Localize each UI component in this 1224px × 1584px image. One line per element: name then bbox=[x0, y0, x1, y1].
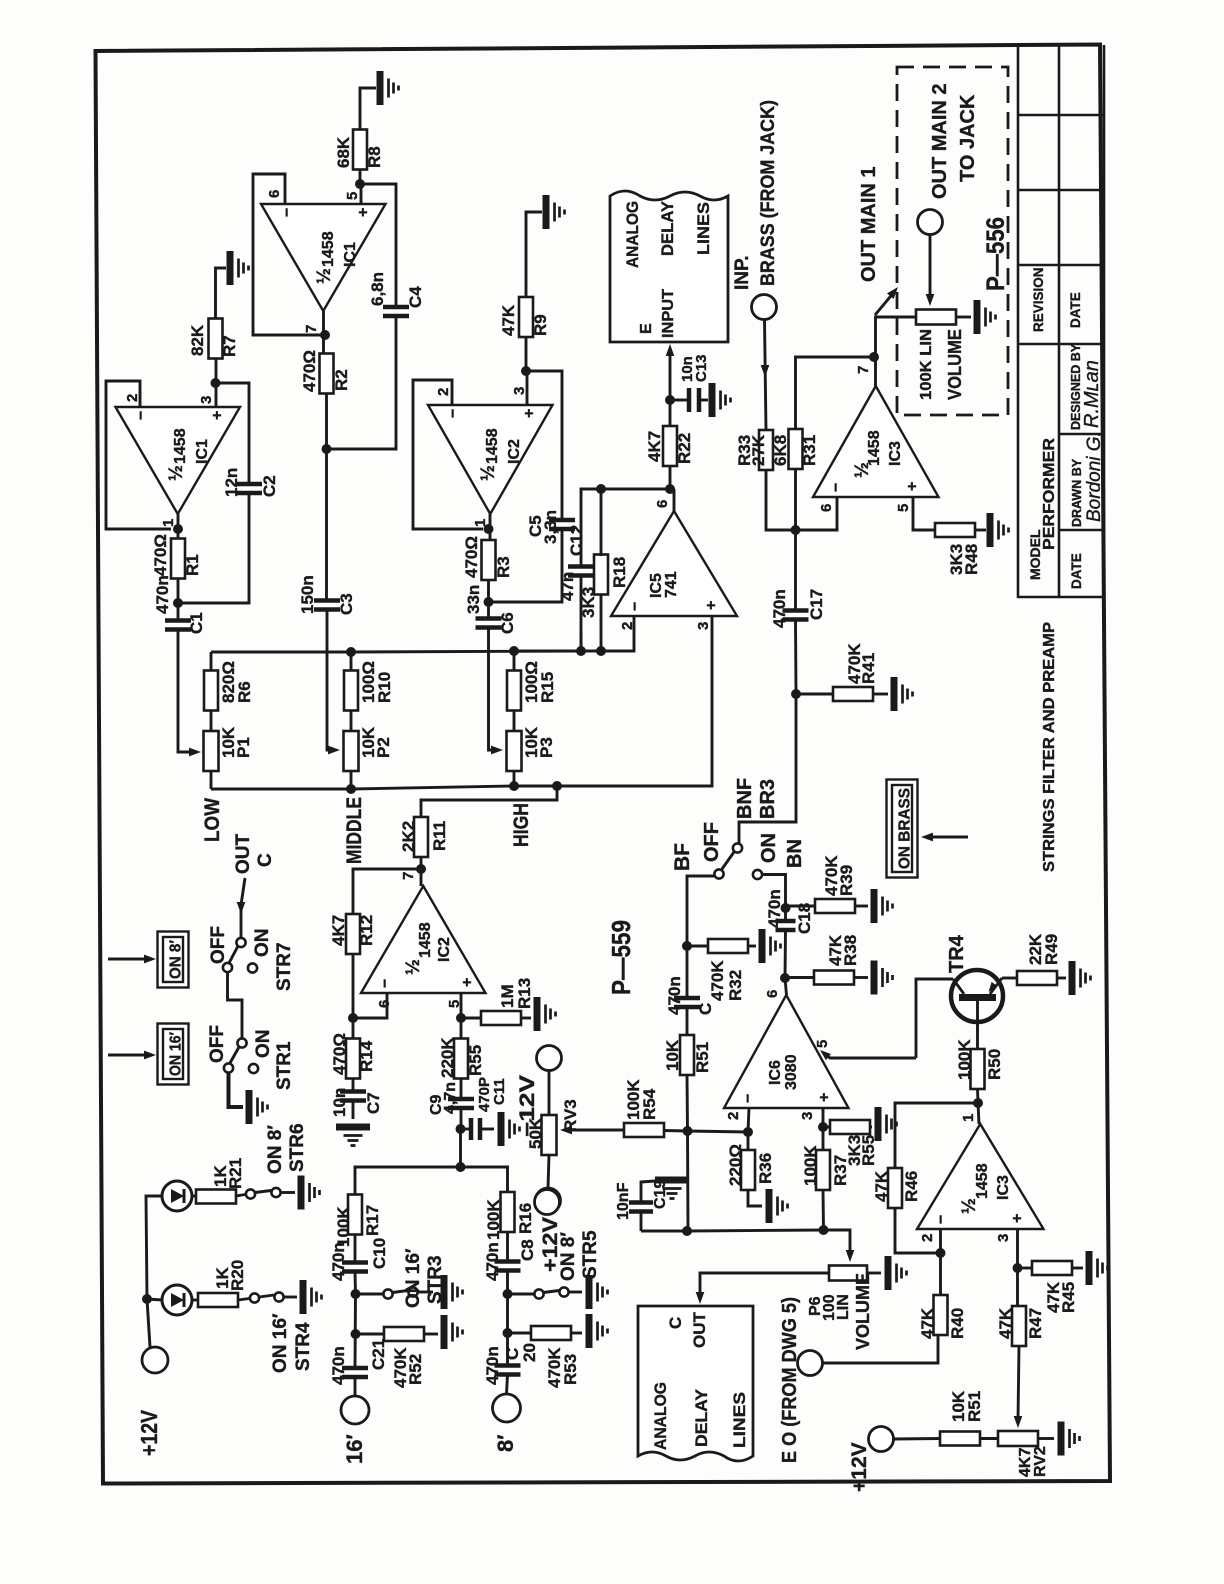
resistor R10 100&#937; bbox=[344, 671, 358, 711]
bottom rail to P6 bbox=[688, 1230, 850, 1250]
wire STR5 to ground bbox=[569, 1291, 582, 1294]
svg-text:470Ω: 470Ω bbox=[330, 1033, 349, 1075]
wire IC2a pin2 feedback loop bbox=[413, 380, 483, 529]
switch STR5 left contact bbox=[534, 1289, 543, 1298]
svg-text:PERFORMER: PERFORMER bbox=[1041, 438, 1058, 550]
svg-text:R.Mʟan: R.Mʟan bbox=[1081, 360, 1103, 428]
junction R1/C1/C2 node bbox=[173, 598, 183, 608]
wire R13 to ground bbox=[521, 1017, 531, 1020]
resistor R32 470K bbox=[708, 939, 748, 953]
resistor R16 100K bbox=[501, 1192, 515, 1232]
svg-text:ON 16′: ON 16′ bbox=[403, 1248, 424, 1308]
svg-text:OFF: OFF bbox=[701, 822, 723, 862]
svg-text:C17: C17 bbox=[807, 589, 826, 620]
junction P6 feed bbox=[819, 1225, 829, 1235]
svg-text:BRASS (FROM JACK): BRASS (FROM JACK) bbox=[758, 100, 779, 286]
junction pin5/R13/R55 bbox=[456, 1013, 466, 1023]
svg-text:−: − bbox=[627, 602, 644, 611]
resistor R51b 10K bbox=[940, 1432, 980, 1446]
drawing border frame bbox=[96, 45, 1111, 1484]
terminal +12V bottom right bbox=[869, 1427, 894, 1452]
svg-text:C: C bbox=[255, 853, 276, 867]
wire C11 to ground bbox=[481, 1128, 494, 1131]
resistor R48 3K3 bbox=[935, 523, 975, 537]
resistor R51 10K bbox=[680, 1035, 694, 1075]
svg-text:½: ½ bbox=[166, 465, 187, 481]
wire R22 top bbox=[669, 400, 672, 426]
switch STR6 right contact bbox=[271, 1188, 280, 1197]
svg-text:10nF: 10nF bbox=[615, 1182, 632, 1220]
wire R32 to ground bbox=[748, 945, 756, 948]
svg-text:ON 8′: ON 8′ bbox=[168, 940, 185, 979]
svg-text:8′: 8′ bbox=[493, 1434, 518, 1452]
wire BF line down to cap C bbox=[686, 946, 689, 999]
svg-text:100K: 100K bbox=[955, 1039, 974, 1080]
svg-text:470Ω: 470Ω bbox=[300, 350, 319, 392]
wire P6 to ground bbox=[867, 1272, 881, 1275]
ground at R52 bbox=[444, 1315, 463, 1349]
transistor TR4 bbox=[951, 970, 1003, 1022]
svg-text:ON 16′: ON 16′ bbox=[270, 1313, 291, 1373]
wire C9 node down to bottom section bbox=[459, 1129, 462, 1167]
wire R31 bottom bbox=[794, 469, 797, 611]
svg-text:+: + bbox=[355, 208, 372, 217]
terminal EO bbox=[798, 1351, 823, 1376]
switch STR6 lever bbox=[255, 1191, 271, 1193]
switch BR3 BF contact bbox=[714, 869, 723, 878]
ground at R32 bbox=[762, 929, 781, 963]
ground at STR4 bbox=[303, 1280, 322, 1314]
svg-text:R2: R2 bbox=[332, 369, 351, 391]
ground at C7 bbox=[336, 1127, 370, 1146]
svg-text:R18: R18 bbox=[610, 557, 629, 588]
switch STR3 wire bbox=[356, 1293, 384, 1296]
svg-text:100K: 100K bbox=[334, 1206, 353, 1247]
wire mid rail to IC5 pin2 bbox=[514, 616, 634, 651]
svg-text:150n: 150n bbox=[298, 575, 317, 614]
wire BN contact down to C18 bbox=[762, 875, 786, 922]
wire 16' to C21 bbox=[354, 1378, 357, 1396]
junction pin3/R9/C5 node bbox=[521, 366, 531, 376]
ground at R53 bbox=[589, 1314, 608, 1348]
junction STR5 bbox=[503, 1289, 513, 1299]
switch STR3 right contact bbox=[408, 1287, 417, 1296]
svg-text:R3: R3 bbox=[494, 556, 513, 578]
junction bottom rail R11 branch bbox=[552, 781, 562, 791]
wire pin6 to node bbox=[353, 993, 387, 1018]
junction IC2b output bbox=[416, 864, 426, 874]
wire R50 down to IC3b output node bbox=[978, 1089, 980, 1124]
junction R37/R55b bbox=[818, 1122, 828, 1132]
ground at R13 bbox=[537, 997, 556, 1031]
wire C9 to junction bbox=[460, 1108, 463, 1129]
switch BR3 common contact bbox=[733, 843, 742, 852]
svg-text:VOLUME: VOLUME bbox=[945, 329, 965, 400]
wire STR4 to ground bbox=[284, 1296, 297, 1299]
wire C12 bottom bbox=[580, 576, 583, 652]
switch STR1 OFF contact bbox=[224, 1063, 233, 1072]
svg-text:3: 3 bbox=[995, 1234, 1012, 1242]
junction pin3/R7/C2 node bbox=[211, 378, 221, 388]
arrow into P1 wiper bbox=[189, 748, 201, 757]
svg-text:R46: R46 bbox=[902, 1171, 921, 1202]
svg-text:R37: R37 bbox=[831, 1155, 850, 1186]
resistor R46 47K bbox=[888, 1168, 902, 1208]
resistor R41 470K bbox=[833, 687, 873, 701]
terminal 16' input bbox=[341, 1396, 369, 1424]
resistor R33 27K bbox=[759, 430, 773, 470]
junction pin1 IC1a bbox=[173, 524, 183, 534]
op-amp IC3 first half bbox=[813, 386, 939, 497]
potentiometer P2 10K bbox=[344, 731, 359, 771]
svg-text:R54: R54 bbox=[640, 1088, 659, 1120]
svg-text:100K: 100K bbox=[484, 1199, 503, 1240]
switch STR7 common contact bbox=[236, 938, 245, 947]
wire IC5 output up bbox=[673, 489, 676, 511]
svg-text:TR4: TR4 bbox=[946, 934, 968, 973]
svg-text:OUT: OUT bbox=[233, 834, 254, 875]
wire C7 to ground bbox=[352, 1101, 355, 1120]
svg-text:5: 5 bbox=[344, 192, 361, 200]
switch STR7 lever bbox=[229, 946, 238, 963]
junction pin2/R40/R46 bbox=[936, 1248, 946, 1258]
op-amp IC3 second half bbox=[917, 1124, 1044, 1229]
ground at R48 bbox=[990, 513, 1009, 547]
wire OUT C arrow to STR7 bbox=[241, 878, 245, 938]
op-amp IC1 second half (pins 5,6,7) bbox=[261, 204, 386, 311]
wire R47 down to RV2 wiper bbox=[1018, 1346, 1019, 1420]
svg-text:5: 5 bbox=[814, 1040, 831, 1048]
op-amp IC1 first half (pins 1,2,3) bbox=[116, 407, 241, 514]
wire R6 to P1 bbox=[210, 711, 213, 731]
wire volume pot to ground bbox=[956, 316, 971, 319]
resistor R38 47K bbox=[814, 971, 854, 985]
wire R38 to ground bbox=[854, 976, 868, 979]
switch STR4 right contact bbox=[274, 1292, 283, 1301]
svg-text:½: ½ bbox=[959, 1198, 980, 1214]
wire R41 to ground bbox=[873, 693, 888, 696]
junction R12/R14/pin6 bbox=[348, 1013, 358, 1023]
ground at RV2 bbox=[1061, 1422, 1080, 1456]
wire R18 bottom bbox=[600, 595, 603, 651]
wire LED to R20 bbox=[192, 1299, 199, 1302]
potentiometer P3 10K bbox=[507, 731, 522, 771]
wire STR1 to ground bbox=[229, 1073, 244, 1108]
potentiometer RV3 50K bbox=[542, 1115, 557, 1155]
svg-text:REVISION: REVISION bbox=[1031, 267, 1046, 332]
wire pin5 to node bbox=[460, 993, 463, 1038]
svg-text:R22: R22 bbox=[675, 433, 694, 464]
resistor R14 470&#937; bbox=[346, 1039, 360, 1079]
junction R31/R33/pin6 node bbox=[791, 525, 801, 535]
svg-text:R15: R15 bbox=[538, 672, 557, 703]
wire R37 down to volume junction bbox=[822, 1190, 825, 1230]
wire IC3a pin5 to R48 bbox=[913, 497, 936, 530]
arrow into analog delay box bbox=[666, 344, 675, 356]
switch STR1 common contact bbox=[237, 1038, 246, 1047]
svg-text:−: − bbox=[133, 411, 150, 420]
wire rail to R16 bbox=[461, 1167, 508, 1192]
terminal +12V at STR5 area bbox=[535, 1190, 560, 1215]
capacitor C6 33n bbox=[476, 619, 502, 628]
ground at R9 bbox=[546, 195, 565, 229]
svg-text:20: 20 bbox=[520, 1343, 539, 1362]
svg-text:−: − bbox=[377, 979, 394, 988]
wire LED to R21 bbox=[192, 1195, 197, 1198]
svg-text:Bordoni G.: Bordoni G. bbox=[1084, 431, 1105, 522]
wire R1 to node bbox=[177, 578, 180, 620]
feedback rail above IC5 bbox=[581, 489, 674, 566]
svg-text:½: ½ bbox=[478, 465, 499, 481]
op-amp IC2 second half bbox=[361, 886, 486, 993]
svg-text:220Ω: 220Ω bbox=[726, 1144, 745, 1186]
wire C8 to STR5 junction bbox=[506, 1271, 509, 1333]
svg-text:470Ω: 470Ω bbox=[462, 536, 481, 578]
arrow on INP wire bbox=[761, 365, 770, 377]
wire C13 node up to delay box arrow bbox=[669, 354, 672, 400]
resistor R11 2K2 bbox=[414, 817, 428, 857]
wire R7 to ground bbox=[216, 268, 227, 318]
wire C18 down to R38 junction bbox=[785, 930, 787, 995]
wire C13 to ground bbox=[700, 399, 708, 402]
wire RV3 to +12V terminal bbox=[548, 1155, 549, 1188]
wire C19 branch bbox=[686, 1230, 689, 1233]
svg-text:R51: R51 bbox=[693, 1042, 712, 1073]
svg-text:+12V: +12V bbox=[848, 1442, 871, 1492]
svg-text:R52: R52 bbox=[406, 1354, 425, 1385]
svg-text:P—556: P—556 bbox=[982, 217, 1010, 291]
svg-text:DELAY: DELAY bbox=[658, 200, 677, 256]
svg-text:C8: C8 bbox=[518, 1239, 537, 1261]
svg-text:100K: 100K bbox=[801, 1145, 820, 1186]
svg-text:C12: C12 bbox=[567, 525, 586, 556]
svg-text:R40: R40 bbox=[948, 1308, 967, 1339]
svg-text:+: + bbox=[703, 601, 720, 610]
resistor R53 470K bbox=[531, 1326, 571, 1340]
wire R46 to pin2 node bbox=[895, 1208, 941, 1253]
svg-text:470n: 470n bbox=[665, 976, 684, 1015]
LED diode lower bbox=[162, 1285, 192, 1315]
wire IC1b pin6 feedback loop bbox=[253, 174, 326, 335]
svg-text:C4: C4 bbox=[406, 286, 425, 308]
ground at STR3 bbox=[444, 1275, 463, 1309]
ground at R45 bbox=[1089, 1251, 1108, 1285]
resistor R20 1K bbox=[198, 1293, 238, 1307]
svg-text:470K: 470K bbox=[708, 960, 727, 1001]
junction R45/R47 bbox=[1013, 1263, 1023, 1273]
junction bottom rail P3 bbox=[509, 781, 519, 791]
svg-text:2: 2 bbox=[619, 622, 636, 630]
wire R36 to ground bbox=[748, 1190, 762, 1206]
svg-text:½: ½ bbox=[314, 268, 335, 284]
ground at R38 bbox=[874, 961, 893, 995]
svg-text:C10: C10 bbox=[370, 1238, 389, 1269]
svg-text:C: C bbox=[666, 1317, 685, 1329]
junction pin1 IC2a bbox=[484, 524, 494, 534]
svg-text:12n: 12n bbox=[222, 468, 241, 497]
ground at R41 bbox=[894, 677, 913, 711]
potentiometer RV2 4K7 bbox=[998, 1431, 1038, 1446]
capacitor C4 6,8n bbox=[383, 307, 409, 316]
svg-text:6: 6 bbox=[764, 990, 781, 998]
svg-text:1458: 1458 bbox=[974, 1163, 991, 1199]
svg-text:+: + bbox=[816, 1093, 833, 1102]
svg-text:IC2: IC2 bbox=[506, 439, 523, 464]
svg-text:OUT: OUT bbox=[690, 1312, 709, 1349]
wire R39 to ground bbox=[855, 905, 868, 908]
svg-text:50K: 50K bbox=[526, 1117, 545, 1149]
svg-text:3080: 3080 bbox=[783, 1054, 800, 1090]
switch STR5 lever bbox=[544, 1291, 560, 1293]
switch STR7 OFF contact bbox=[223, 963, 232, 972]
terminal +12V bottom left bbox=[142, 1347, 168, 1373]
wire P6 to delay box with arrow bbox=[700, 1273, 830, 1297]
resistor R47 47K bbox=[1012, 1306, 1026, 1346]
wire C3 down to P2 wiper arrow bbox=[327, 610, 332, 751]
svg-text:P3: P3 bbox=[537, 737, 556, 758]
svg-text:R14: R14 bbox=[357, 1040, 376, 1072]
wire pin3 down bbox=[1016, 1229, 1019, 1307]
svg-text:7: 7 bbox=[303, 325, 320, 333]
capacitor C3 150n bbox=[314, 601, 340, 610]
wire IC2a pin3 up bbox=[526, 371, 529, 405]
TR4 emitter arrow bbox=[986, 982, 998, 994]
svg-text:P—559: P—559 bbox=[606, 920, 636, 995]
resistor R54 100K bbox=[624, 1123, 664, 1137]
capacitor C21 470n bbox=[342, 1368, 368, 1377]
wire IC1b output apex to node bbox=[322, 311, 325, 355]
svg-text:C21: C21 bbox=[369, 1339, 388, 1370]
capacitor C2 12n bbox=[236, 484, 262, 493]
svg-text:STR6: STR6 bbox=[287, 1123, 308, 1172]
svg-text:C11: C11 bbox=[491, 1078, 508, 1105]
op-amp IC6 3080 bbox=[724, 995, 849, 1108]
svg-text:DELAY: DELAY bbox=[692, 1388, 711, 1447]
wire TR4 emitter to R49 bbox=[1002, 977, 1017, 980]
svg-text:BF: BF bbox=[671, 843, 694, 871]
wire OUT MAIN2 to volume pot wiper bbox=[929, 235, 932, 296]
svg-text:INP.: INP. bbox=[732, 255, 753, 290]
svg-text:741: 741 bbox=[663, 571, 680, 598]
svg-text:LIN: LIN bbox=[835, 1294, 852, 1320]
wire R12 to pin6 node bbox=[352, 954, 355, 1040]
wire R2 to C3 bbox=[325, 393, 328, 600]
wire R16 to C8 bbox=[506, 1232, 509, 1261]
svg-text:IC1: IC1 bbox=[342, 242, 359, 267]
wire STR7 to STR1 bbox=[228, 972, 243, 1038]
wire R22 bottom bbox=[669, 466, 672, 489]
svg-text:R45: R45 bbox=[1059, 1282, 1078, 1313]
svg-text:ON: ON bbox=[252, 929, 273, 958]
junction pin5/R8/C4 node bbox=[355, 179, 365, 189]
junction R2/C3/C4 node bbox=[322, 444, 332, 454]
svg-text:R8: R8 bbox=[365, 146, 384, 168]
svg-text:−: − bbox=[740, 1094, 757, 1103]
junction R41 node bbox=[791, 689, 801, 699]
resistor R7 82K bbox=[209, 319, 223, 359]
svg-text:+12V: +12V bbox=[136, 1409, 162, 1456]
arrow OUT MAIN 1 bbox=[875, 291, 895, 315]
wire C17 down bbox=[739, 620, 796, 843]
arrow onto RV2 bbox=[1014, 1416, 1023, 1428]
wire junction down to C20 bbox=[506, 1333, 509, 1365]
svg-text:2: 2 bbox=[435, 388, 452, 396]
RV3 wiper arrow from R54 bbox=[570, 1129, 624, 1132]
ground at P6 bbox=[888, 1256, 907, 1290]
svg-text:3: 3 bbox=[198, 396, 215, 404]
svg-text:1458: 1458 bbox=[417, 922, 434, 958]
svg-text:R9: R9 bbox=[531, 314, 550, 336]
ground at R36 bbox=[769, 1189, 788, 1223]
LOW/MIDDLE/HIGH bottom rail bbox=[211, 616, 712, 789]
svg-text:P2: P2 bbox=[374, 737, 393, 758]
ground at volume pot bbox=[977, 300, 996, 334]
svg-text:E O (FROM DWG 5): E O (FROM DWG 5) bbox=[779, 1297, 801, 1463]
wire junction to IC6 pin2 and R36 bbox=[688, 1131, 749, 1132]
wire BF contact to filter line bbox=[687, 876, 714, 946]
svg-text:R6: R6 bbox=[235, 681, 254, 703]
svg-text:LINES: LINES bbox=[694, 202, 713, 255]
wire P3 to rail bbox=[513, 771, 516, 786]
svg-text:R53: R53 bbox=[561, 1354, 580, 1385]
svg-text:INPUT: INPUT bbox=[660, 288, 677, 338]
wire RV2 to ground bbox=[1038, 1437, 1054, 1440]
svg-text:R31: R31 bbox=[800, 435, 819, 466]
ground at R55b bbox=[878, 1107, 897, 1141]
wire C to R51 bbox=[686, 1007, 689, 1035]
svg-text:10n: 10n bbox=[330, 1088, 349, 1117]
top junction rail LOW-MIDDLE-HIGH upper bbox=[211, 652, 351, 671]
resistor R21 1K bbox=[196, 1190, 236, 1204]
resistor R17 100K bbox=[348, 1195, 362, 1235]
svg-text:7: 7 bbox=[855, 366, 872, 374]
svg-text:4K7: 4K7 bbox=[329, 915, 348, 946]
svg-text:½: ½ bbox=[403, 959, 424, 975]
svg-text:R41: R41 bbox=[859, 653, 878, 684]
arrow into ON BRASS box bbox=[930, 836, 968, 839]
junction R22/output bbox=[665, 484, 675, 494]
wire STR6 to ground bbox=[281, 1191, 295, 1194]
wire C10 to R17 bbox=[354, 1234, 357, 1262]
svg-text:7: 7 bbox=[400, 872, 417, 880]
svg-text:47K: 47K bbox=[499, 304, 518, 336]
svg-text:470n: 470n bbox=[765, 889, 784, 928]
resistor 3K3 R55b bbox=[830, 1120, 870, 1134]
wire IC6 pin2 down bbox=[748, 1108, 749, 1132]
wire IC1a pin2 feedback loop bbox=[106, 381, 171, 529]
ground at C11 bbox=[501, 1112, 520, 1146]
svg-text:R38: R38 bbox=[841, 935, 860, 966]
svg-text:DATE: DATE bbox=[1068, 292, 1083, 328]
svg-text:470n: 470n bbox=[770, 589, 789, 628]
resistor R3 470&#937; bbox=[482, 540, 496, 580]
switch BR3 lever bbox=[722, 852, 734, 869]
switch STR3 left contact bbox=[383, 1289, 392, 1298]
resistor R36 220&#937; bbox=[741, 1150, 755, 1190]
junction C19 bbox=[682, 1226, 692, 1236]
svg-text:33n: 33n bbox=[464, 585, 483, 614]
svg-text:6: 6 bbox=[654, 500, 671, 508]
svg-text:+: + bbox=[209, 411, 226, 420]
svg-text:C19: C19 bbox=[652, 1180, 669, 1209]
box ANALOG DELAY LINES (C OUT) bbox=[638, 1306, 753, 1461]
svg-text:OFF: OFF bbox=[208, 926, 229, 964]
svg-text:4,7n: 4,7n bbox=[442, 1082, 459, 1114]
ground at R39 bbox=[874, 889, 893, 923]
wire R14 to C7 bbox=[352, 1079, 355, 1091]
svg-text:R12: R12 bbox=[357, 915, 376, 946]
wire R55b to ground bbox=[870, 1126, 872, 1129]
